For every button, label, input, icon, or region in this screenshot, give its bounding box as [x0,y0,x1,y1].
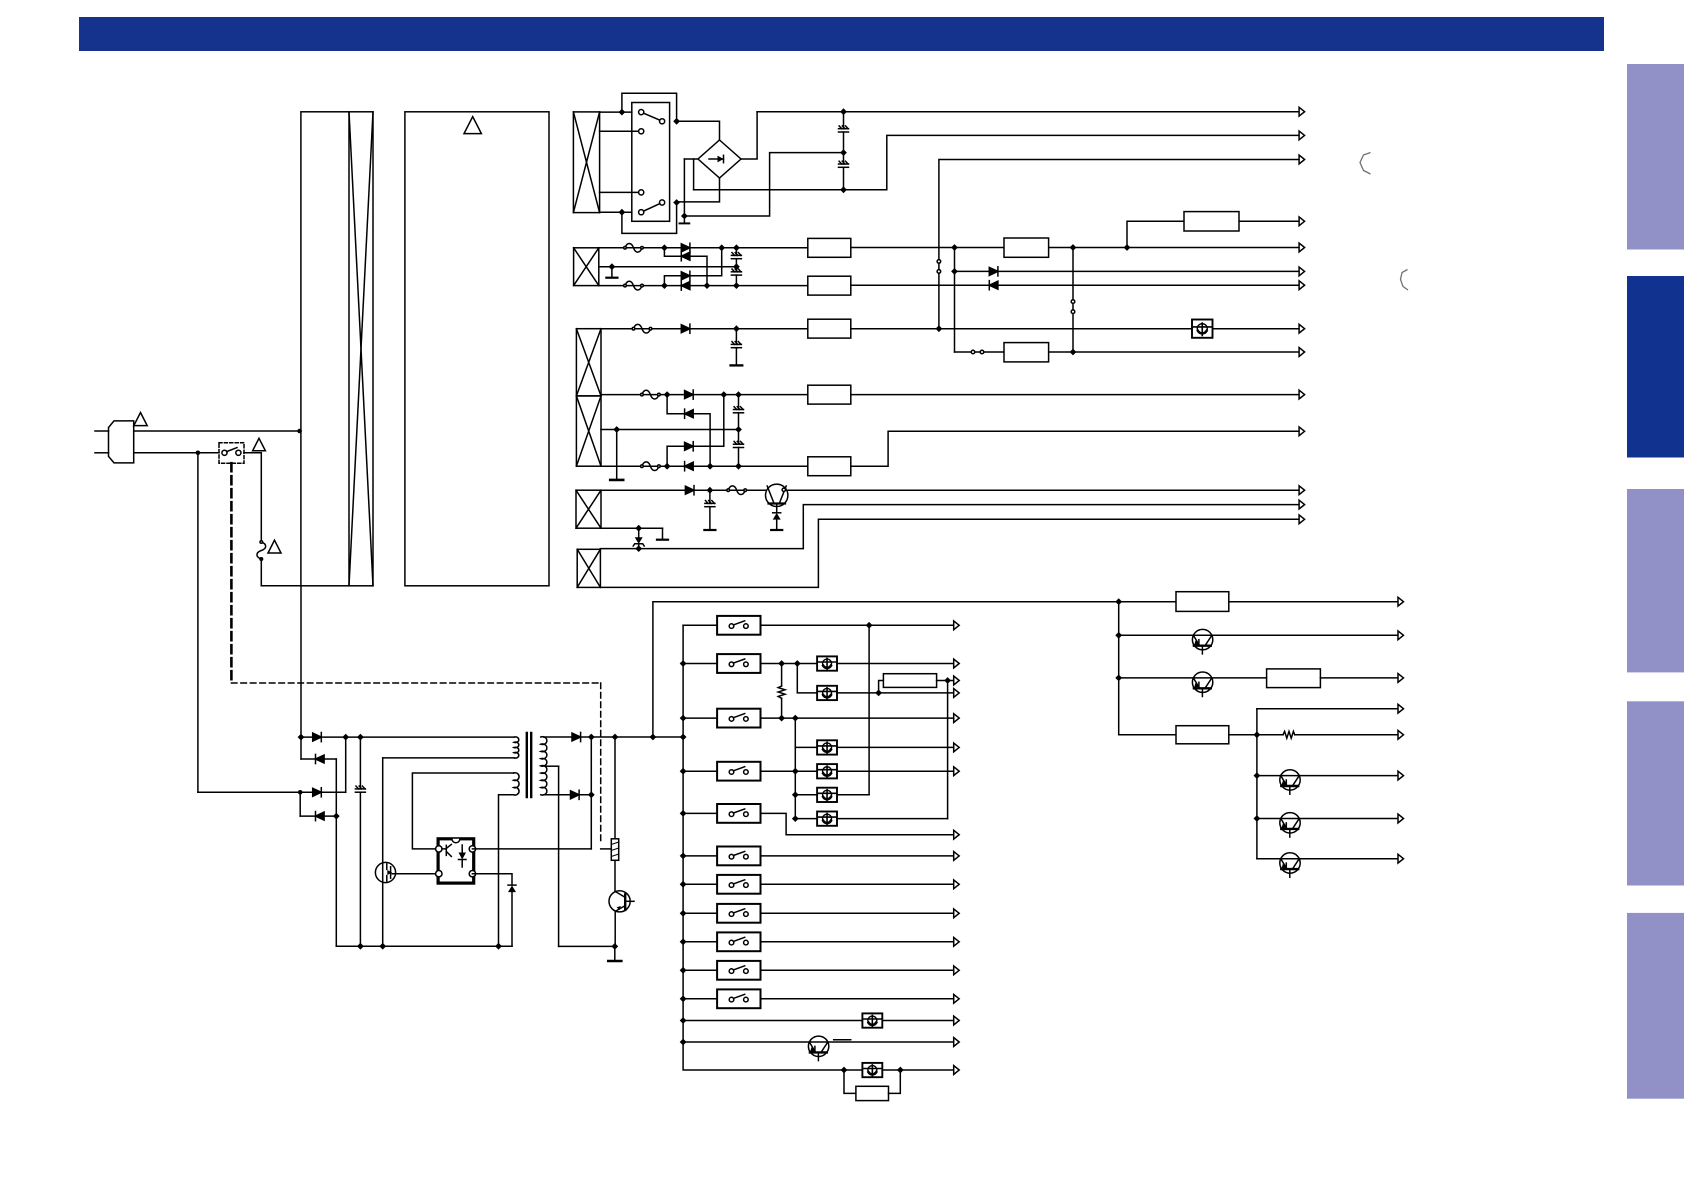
transistor Q5 [609,891,630,912]
arrow output V2 [1299,500,1305,509]
wire secondary top [544,736,591,738]
wire vertical link x954 [954,248,956,353]
arrow output DC6 [1299,390,1305,399]
interlock dashed link horizontal [231,682,600,684]
cross link D9 tail [693,414,710,467]
capacitor C1 [843,112,845,129]
connector CN5 [808,319,851,338]
wire ladder row4 [300,815,336,817]
junction bus r10 [680,967,687,974]
junction DC1 a [951,244,958,251]
junction W4b [635,525,642,532]
wire x336 to rail [335,816,337,946]
thermostat TS5 [817,764,837,778]
DB1 diode symbol [709,158,724,160]
relay K11 row [683,998,717,1000]
ground GND8 [614,946,616,960]
S1 contact circles [222,450,227,455]
transistor Q7 row [1115,632,1122,639]
transistor Q11 row [1257,858,1398,860]
wire DB1 plus output riser [741,112,757,159]
junction W2f [733,282,740,289]
junction rail x652 [650,734,657,741]
wire W5 bottom to row V3 [600,519,1299,587]
capacitor C9 column [359,737,361,789]
relay bus vertical [683,625,954,1070]
interlock switch S1 dashed box [219,443,244,463]
arrow output DC7 [1299,427,1305,436]
plug prong top [95,430,109,432]
wire output row AC3 riser [939,160,1299,329]
junction bus r6 [680,853,687,860]
cross link D9 branch [667,395,685,414]
wire W5 top to row V2 [600,505,1299,549]
capacitor C6 [738,395,740,410]
wire x591 riser [590,737,592,849]
wire long left vertical to SMPS [197,453,199,793]
plug prong bottom [95,452,109,454]
fuse F5 [641,390,661,399]
junction W2e [704,282,711,289]
wire row DC7 step [851,431,1299,466]
fuse F3 [624,281,644,290]
wire row up branch [1257,708,1398,710]
transistor Q8 row [1115,675,1122,682]
junction W3g [735,463,742,470]
wire H1 to TS4 [947,681,949,819]
wire branch riser x693 [693,159,695,190]
junction W2c [733,244,740,251]
junction DC2 [951,268,958,275]
diode D9 [685,409,694,418]
transformer secondary winding T1-W3 upper [576,329,601,396]
wire row3 riser [345,737,347,792]
switching FET Q2 column [382,758,384,946]
wire primary2 bottom [499,795,514,946]
junction W2b [718,244,725,251]
wire W4 leg2 [601,527,663,529]
junction bus r3 [680,715,687,722]
junction bus r7 [680,881,687,888]
connector pins row DC5 [971,350,975,354]
diode D2 [681,252,690,261]
side tab 3 [1627,489,1684,672]
junction ladder b [342,734,349,741]
connector CN8 [808,457,851,476]
relay K9 row [683,941,717,943]
junction bus r12 [680,1017,687,1024]
transformer T2 core [526,733,528,797]
capacitor C4 [735,267,737,272]
header bar [79,17,1604,51]
wire row DC5 [955,351,1300,353]
diode D8 [685,390,694,399]
junction bus r4 [680,768,687,775]
junction rail b [379,943,386,950]
wire DB1 minus to ground node [683,159,685,216]
connector CN2 [1004,238,1049,257]
PU1 winding X diagonal 1 [349,112,373,586]
wire W4 leg1 [601,489,766,491]
side tab 4 [1627,701,1684,885]
wire W1 pin3 [600,191,642,193]
transistor Q6 row [683,1041,954,1043]
connector pins on x1073 [1071,300,1075,304]
wire W1 pin1 [600,111,632,113]
transistor Q9 row [1254,772,1261,779]
S2 lower blade [644,204,660,212]
diode D6 [989,281,998,290]
arrow output DC3 [1299,281,1305,290]
wire R1 to Q5 collector [614,860,616,891]
PU1 divider [348,112,350,586]
S1 blade [227,448,237,452]
junction sec rail [611,943,618,950]
diode D4 [681,281,690,290]
junction bus r2 [680,660,687,667]
fuse F4 [632,324,652,333]
ground GND1 [683,216,685,222]
thermostat TS8 row [841,1067,848,1074]
wire secondary tap [545,765,559,767]
S2 outer loop bottom [622,206,677,234]
ground GND6 [704,529,715,531]
connector CN3 [1184,212,1239,231]
junction row AC2 [840,186,847,193]
junction ladder d [333,813,340,820]
connector CN1 [808,238,851,257]
junction DC1 b [1070,244,1077,251]
junction rail a [357,943,364,950]
connector CN4 [808,276,851,295]
fuse F6 [641,462,661,471]
primary side rail [336,945,512,947]
junction S2 c [673,118,680,125]
cross link D2 branch [664,248,681,256]
relay K1 row [683,624,717,626]
brace callout 2 [1401,270,1409,291]
ground GND3 [731,364,743,366]
wire TS2 feed [797,664,817,693]
wire tap down to sec rail [558,766,560,946]
wire row DC4 [851,328,1299,330]
warning triangle A3 [268,540,281,553]
cross link D3 tail [690,248,722,276]
thermostat TS7 row [683,1020,862,1022]
PC1 inner transistor [442,844,451,856]
secondary side rail [559,945,615,947]
wire ground node to cap chain [684,153,843,216]
junction sec top [588,734,595,741]
wire x300 link [299,792,301,816]
arrow output DC2 [1299,267,1305,276]
wire down to fuse F1 [260,453,262,542]
transistor Q1 [766,484,788,506]
junction ground node [681,213,688,220]
wire fuse to PU1 bottom [260,559,262,586]
junction tap [609,263,616,270]
right bus vertical [1119,602,1176,735]
S2 lower contacts [639,190,644,195]
wire plug bottom to interlock switch [134,452,219,454]
junction W3d [735,391,742,398]
right section feed junction [1115,598,1122,605]
thermostat TS6 [795,794,817,796]
interlock dashed link vertical [230,463,233,683]
S2 upper blade [644,113,660,120]
junction row AC1 [840,108,847,115]
transformer secondary winding T1-W2 [574,248,599,286]
wire row V1 [788,489,1299,491]
wire W3 leg2 [601,394,808,396]
relay K4 row [683,770,717,772]
junction W3c [720,391,727,398]
wire FET gate to opto [392,873,439,875]
resistor R4 row [1257,734,1283,736]
junction dot row3 [298,790,303,795]
thermostat TS4 [795,818,817,820]
wire opto BR pin to zener [472,874,512,885]
wire ladder row2 [301,758,336,760]
warning triangle A4 [464,117,481,134]
fuse F2 [624,243,644,252]
relay K5 row [683,812,717,814]
PC1 inner diode [459,853,467,860]
wire W1 pin4 [600,211,632,213]
cross link D10 tail [693,395,724,447]
junction DC5 [1070,349,1077,356]
relay K3 row [683,717,717,719]
junction cap chain mid [840,149,847,156]
junction tap2-cap [735,426,742,433]
arrow output V3 [1299,515,1305,524]
cross link D3 branch [664,276,681,286]
wire output row AC2 [694,135,1299,189]
capacitor C2 [843,153,845,164]
wire W3 leg3 [601,465,808,467]
wire W3 center tap [601,429,739,431]
wire W2 leg2 [599,285,808,287]
transformer secondary winding T1-W1 [573,112,599,213]
junction W3b [664,391,671,398]
resistor R2 vertical [781,664,783,687]
wire row DC3 [851,284,1299,286]
bypass resistor R3 [844,1070,856,1093]
wire S2 to bridge [677,121,720,140]
diode D13 [313,733,322,742]
junction DC4 riser [936,325,943,332]
interlock dashed link vertical 2 [600,683,602,844]
junction bus r13 [680,1039,687,1046]
wire x336 upper [335,759,337,816]
dashed link tail to resistor [601,848,612,850]
wire opto TR pin to x591 [472,848,591,850]
arrow output AC1 [1299,107,1305,116]
wire W1 pin2 [600,130,642,132]
diode D11 [685,462,694,471]
diode D1 [681,243,690,252]
wire W2 leg1 [599,247,808,249]
wire secondary bottom [544,794,592,796]
arrow output DC5 [1299,348,1305,357]
Q1 zener ZD1 to ground [776,504,778,513]
arrow output AC2 [1299,131,1305,140]
diode D18 [571,790,580,799]
connector CN7 [808,385,851,404]
wire row DC6 [851,394,1299,396]
diode D17 [572,732,581,741]
transformer secondary winding T1-W3 lower [576,396,601,466]
connector pins on riser [937,260,941,264]
heater lamp box H1 [879,681,884,693]
relay K8 row [683,912,717,914]
arrow output DC4 [1299,324,1305,333]
diode D10 [685,442,694,451]
warning triangle A1 [134,413,147,426]
wire plug top to noise filter PU1 [134,430,301,432]
arrow output AC3 [1299,155,1305,164]
wire row DC2 [955,270,1300,272]
side tab 5 [1627,913,1684,1099]
junction dot at filter input [297,429,302,434]
PU1 winding X diagonal 2 [349,112,373,586]
fuse F7 [727,486,747,495]
noise filter / primary block PU1 [301,112,373,586]
junction W2d [661,282,668,289]
relay K6 row [683,855,717,857]
capacitor C5 to ground [735,329,737,345]
zener ZD2 [638,528,640,537]
ground drop GND4 [616,430,618,479]
AC plug P1 [109,421,134,463]
resistor R1 column [614,737,616,839]
transformer secondary winding T1-W5 [577,549,600,587]
wire W3 leg1 [601,328,808,330]
wire primary2 top to opto [412,773,513,849]
wire vertical link x1073 [1072,248,1074,353]
diode D14 [316,754,325,763]
opto coupler PC1 [438,839,474,883]
junction DC1 c [1124,244,1131,251]
wire DC bus top [301,736,514,738]
side tab 1 [1627,64,1684,250]
junction rail x615 [612,734,619,741]
relay K7 row [683,883,717,885]
junction S2 a [619,109,626,116]
thermostat TS2 [817,686,837,700]
voltage selector switch S2 box [632,103,670,222]
junction W2a [661,244,668,251]
wire DB1 left vertex [684,158,698,160]
icon thermal protector TP1 [1192,320,1213,338]
ground GND7 [662,528,664,539]
diode D5 [989,267,998,276]
wire output row AC1 [757,111,1299,113]
transformer secondary winding T1-W4 [576,490,601,528]
junction W5a [635,545,642,552]
junction S2 d [673,199,680,206]
thermostat TS3 [795,746,817,748]
junction ladder a [298,734,305,741]
warning triangle A2 [253,438,266,451]
junction tap-cap [733,263,740,270]
wire S1 output [244,452,261,454]
junction bus r9 [680,938,687,945]
wire Q5 emitter [614,911,616,946]
transformer T2 primary2 coil [514,773,519,795]
cross link D2 tail [690,256,707,285]
wire W2 center tap [599,266,737,268]
connector CN9 [1119,601,1176,603]
junction W3e [664,463,671,470]
junction tap2 [613,426,620,433]
wire DC rail to relay bus [591,736,683,738]
capacitor C7 [738,430,740,445]
fuse F1 [257,541,266,561]
diode D7 [681,324,690,333]
junction rail c [495,943,502,950]
cross link D10 branch [667,446,685,466]
junction S2 b [619,209,626,216]
connector CN11 row [1176,726,1229,744]
FET Q2 [375,862,395,882]
junction W4a [707,487,714,494]
bridge rectifier DB1 [698,140,741,178]
arrow output V1 [1299,486,1305,495]
wire row DC1 [851,247,1299,249]
junction W3a [733,325,740,332]
arrow output DC0 [1299,217,1305,226]
transformer T2 primary1 coil [514,737,519,758]
diode D15 [313,788,322,797]
diode D16 [316,812,325,821]
relay K10 row [683,969,717,971]
wire to PU1 bottom corner [261,585,301,587]
diode D12 [685,486,694,495]
junction ladder c [357,734,364,741]
ground GND2 [611,267,613,277]
brace callout 1 [1360,153,1371,175]
junction x591 mid [588,791,595,798]
wire PU1 to rectifier ladder [300,586,302,759]
lower bus vertical [1256,709,1258,859]
junction dot node L2 [196,451,201,456]
thermostat TS1 [817,656,837,670]
ground GND5 [771,529,782,531]
diode D3 [681,271,690,280]
S2 outer loop top [622,93,677,118]
main board block PWB-A [405,112,549,586]
thermostat chain vertical [794,718,796,819]
junction bus r11 [680,995,687,1002]
wire K1 link vertical [868,625,870,795]
junction rail bus [680,734,687,741]
wire primary1 bottom [383,757,514,759]
capacitor C3 [735,248,737,256]
capacitor C8 to ground [709,490,711,503]
arrow output DC1 [1299,243,1305,252]
transformer T2 secondary coil [541,737,547,795]
relay K2 row [683,663,717,665]
zener ZD3 [508,886,516,893]
connector CN6 [1004,343,1049,362]
wire riser to row DC0 [1127,221,1299,247]
wire ladder row3 [198,791,346,793]
transistor Q10 row [1254,815,1261,822]
side tab 2 (active) [1627,276,1684,458]
wire DB1 bottom return [677,178,720,202]
S2 upper contacts [639,110,644,115]
